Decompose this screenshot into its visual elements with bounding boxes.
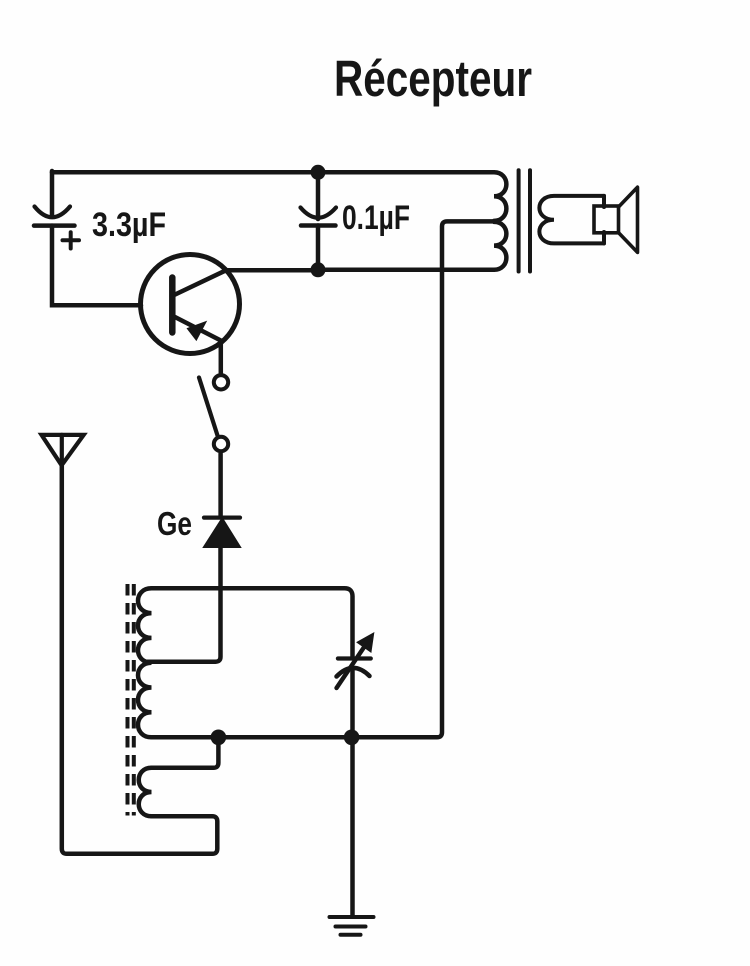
diode D1 cathode bar <box>204 515 240 519</box>
wire diode to coil tap <box>147 547 221 662</box>
switch S1 bottom contact circle <box>214 437 228 451</box>
wire top rail <box>52 170 494 175</box>
inductor L1 tuning coil winding (6 scallops) <box>138 588 152 737</box>
node L1 bottom / L2 <box>211 730 227 746</box>
dashed core of L1/L2 <box>128 584 134 816</box>
switch S1 top contact circle <box>214 375 228 389</box>
switch S1 lever <box>199 378 218 436</box>
node collector rail / C2 <box>311 262 326 277</box>
transformer T1 core <box>519 170 530 271</box>
transformer T1 secondary winding (2 scallops) and leads <box>539 196 604 244</box>
diode D1 triangle <box>205 519 240 547</box>
wire bottom collector rail to transformer <box>318 268 494 273</box>
node C3 bottom / ground <box>344 730 360 746</box>
wire C1 top lead <box>50 171 55 216</box>
wire C2 bottom lead <box>316 226 321 271</box>
svg-text:3.3µF: 3.3µF <box>92 206 166 244</box>
wire node to L2 top lead <box>152 737 219 768</box>
capacitor C2 0.1uF plates <box>301 208 337 226</box>
ground symbol <box>330 917 374 935</box>
svg-text:Récepteur: Récepteur <box>334 50 532 107</box>
transformer T1 primary winding (4 scallops) <box>494 172 506 269</box>
variable capacitor C3 arrow <box>337 634 373 688</box>
wire L2 bottom lead down and left to antenna <box>62 466 218 854</box>
capacitor C2 0.1uF top lead <box>316 172 321 219</box>
transistor Q1 emitter <box>172 316 221 374</box>
antenna ANT1 <box>42 435 84 465</box>
speaker LS1 driver box <box>594 206 619 233</box>
svg-text:0.1µF: 0.1µF <box>342 199 410 237</box>
transistor Q1 body circle <box>141 255 240 354</box>
node top rail / C2 <box>311 165 326 180</box>
wire coil top rail to variable capacitor <box>152 588 353 657</box>
svg-text:Ge: Ge <box>157 505 192 542</box>
transistor Q1 base bar <box>169 278 176 333</box>
wire ground branch <box>350 737 355 915</box>
wire bottom rail from L1 up to transformer tap <box>152 221 493 737</box>
wire C1 bottom lead to transistor base <box>52 226 141 306</box>
transistor Q1 collector + wire to node <box>172 270 318 296</box>
transistor Q1 emitter arrow (PNP) <box>189 323 205 339</box>
wire C3 bottom lead <box>350 670 355 737</box>
speaker LS1 horn <box>619 187 638 252</box>
wire switch to diode <box>218 454 223 517</box>
variable capacitor C3 plates <box>337 659 371 677</box>
capacitor C1 3.3uF electrolytic (curved + straight plate with polarity) <box>34 207 79 249</box>
inductor L2 antenna coupling winding (2 scallops) <box>139 768 152 817</box>
